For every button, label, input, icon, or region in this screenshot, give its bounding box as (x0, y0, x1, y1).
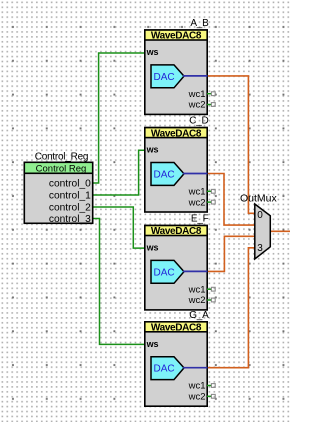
svg-text:3: 3 (257, 243, 263, 254)
svg-text:G_A: G_A (189, 310, 209, 321)
svg-text:Control Reg: Control Reg (36, 164, 87, 175)
svg-text:E_F: E_F (191, 214, 209, 225)
svg-text:A_B: A_B (190, 18, 209, 29)
svg-text:Control_Reg: Control_Reg (35, 152, 88, 163)
svg-text:control_0: control_0 (49, 179, 91, 190)
svg-text:control_3: control_3 (49, 214, 91, 225)
svg-text:C_D: C_D (189, 116, 208, 127)
svg-text:0: 0 (257, 210, 263, 221)
svg-text:control_1: control_1 (49, 191, 91, 202)
svg-text:OutMux: OutMux (240, 192, 278, 204)
svg-text:control_2: control_2 (49, 203, 91, 214)
